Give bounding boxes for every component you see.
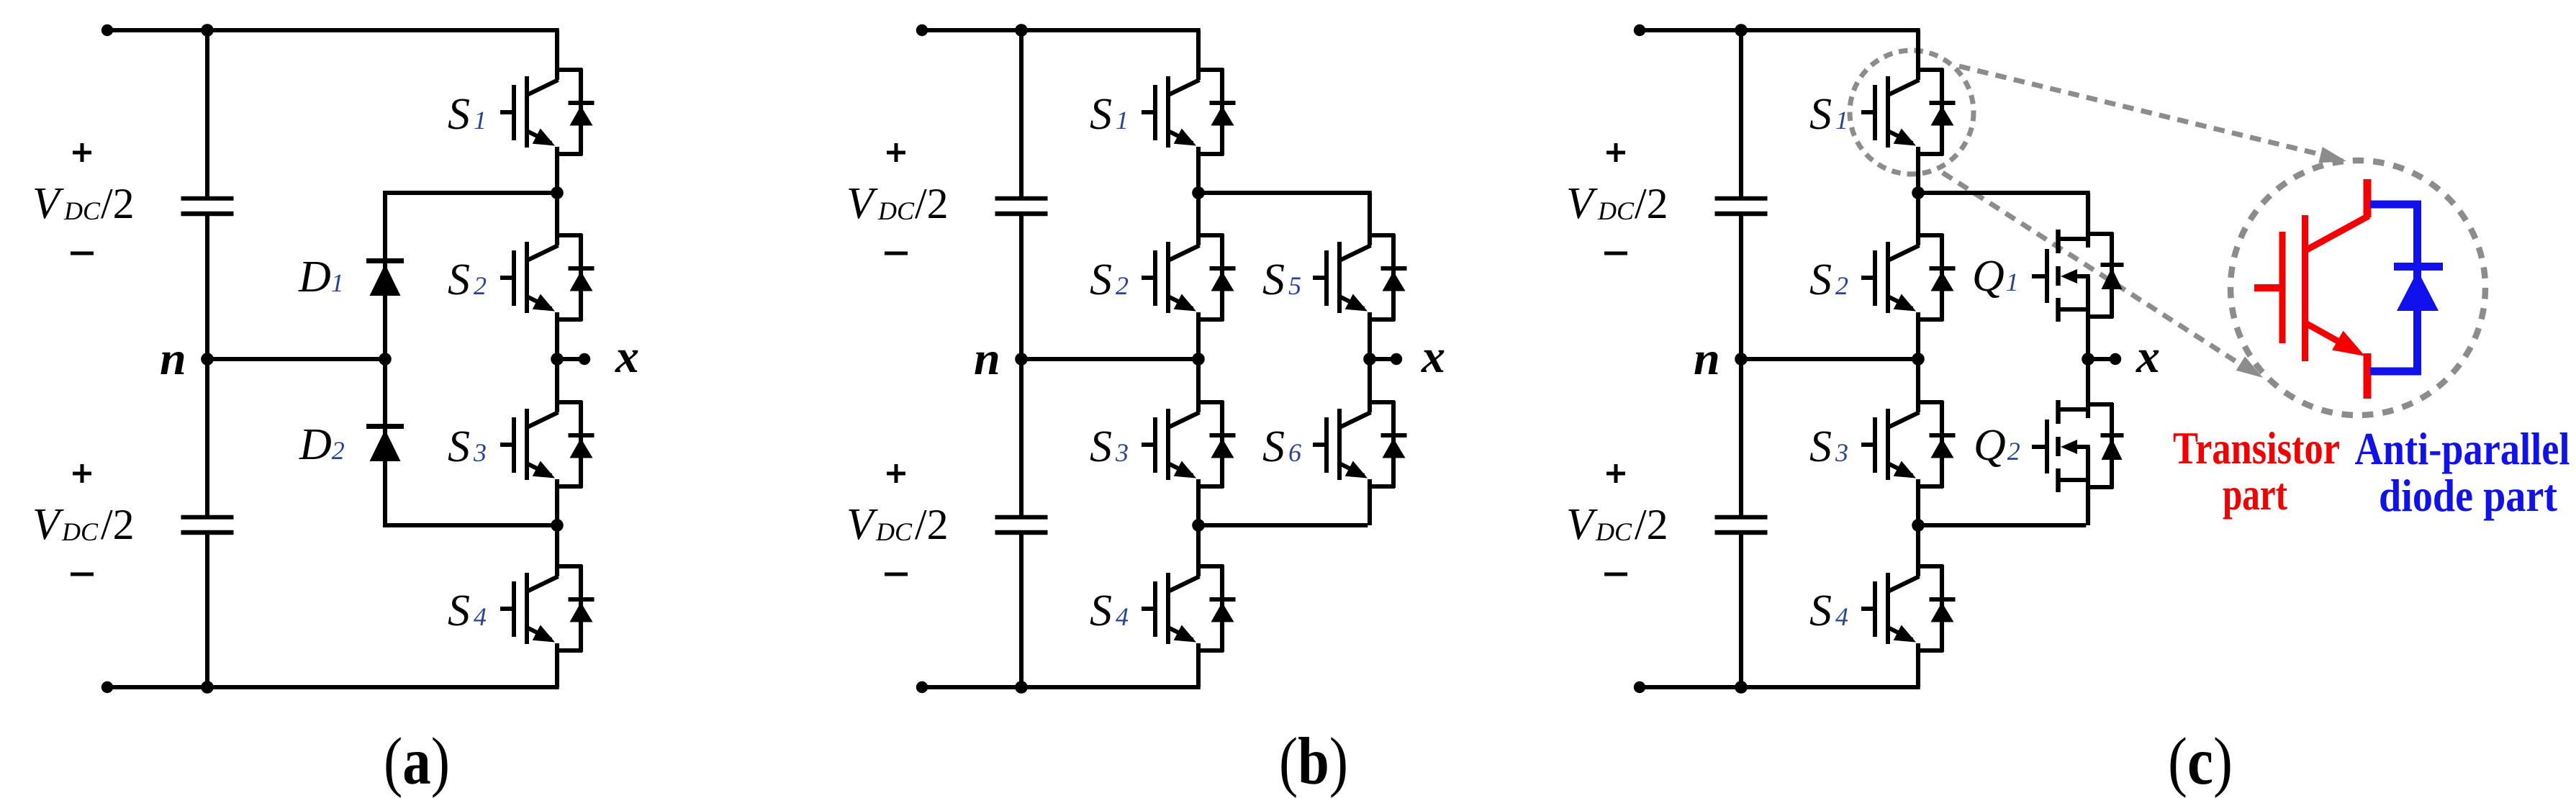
label S1 (b) (1090, 90, 1129, 139)
svg-text:/2: /2 (1635, 501, 1668, 548)
transistor Q2 (c) (2032, 359, 2124, 525)
node n dot (a) (201, 353, 214, 366)
wire DC bus (b) (1019, 30, 1023, 687)
label S4 (b) (1090, 586, 1129, 635)
wire top rail (a) (107, 28, 559, 32)
node x dots (a) (551, 353, 590, 366)
terminal dot top (c) (1634, 24, 1645, 36)
wire clamp top connector (a) (383, 191, 557, 359)
transistor S5 (b) (1313, 234, 1407, 359)
label S1 (a) (448, 90, 487, 139)
label S4 (c) (1809, 586, 1848, 635)
node x stub (c) (2088, 357, 2115, 361)
junction S3-S4 dot (b) (1192, 519, 1205, 532)
inset diode triangle (2397, 271, 2439, 311)
svg-text:V: V (1566, 500, 1598, 549)
transistor S3 (b) (1142, 359, 1236, 525)
svg-text:(a): (a) (384, 725, 450, 798)
svg-text:Anti-parallel: Anti-parallel (2355, 424, 2570, 474)
junction S1-S2 dot (b) (1192, 186, 1205, 199)
svg-text:V: V (846, 500, 878, 549)
svg-text:V: V (846, 179, 878, 228)
junction S2-S3 dot (c) (1912, 353, 1925, 366)
terminal dot top (b) (916, 24, 928, 36)
dashed arrow to inset (bottom) (1943, 173, 2263, 378)
label - upper (c) (1604, 252, 1627, 255)
inset diode top connector (2370, 201, 2421, 209)
terminal dot top (a) (101, 24, 113, 36)
junction clamp-neutral dot (a) (379, 353, 392, 366)
node x stub (b) (1370, 357, 1396, 361)
svg-text:DC: DC (63, 196, 101, 225)
transistor S1 (a) (500, 30, 595, 193)
junction S3-S4 dot (a) (551, 519, 564, 532)
svg-text:part: part (2223, 469, 2287, 520)
wire clamp bottom connector (a) (383, 359, 557, 527)
label - lower (c) (1604, 573, 1627, 576)
capacitor upper VDC/2 (c) (1715, 199, 1768, 214)
label VDC/2 lower (b) (846, 500, 949, 549)
svg-text:DC: DC (877, 196, 915, 225)
wire neutral (a) (207, 357, 385, 361)
wire outer bottom connector (c) (1918, 486, 2088, 525)
terminal dot bottom (c) (1634, 681, 1645, 693)
label + upper (b) (887, 143, 905, 162)
label S3 (b) (1090, 422, 1129, 471)
svg-text:n: n (160, 332, 186, 385)
label VDC/2 lower (c) (1566, 500, 1668, 549)
transistor S1 (c) (1861, 30, 1956, 193)
label + lower (b) (887, 464, 905, 483)
junction S1-S2 dot (c) (1912, 186, 1925, 199)
inset transistor emitter diagonal (2307, 324, 2365, 356)
svg-text:/2: /2 (101, 180, 135, 227)
inset transistor collector lead (2364, 179, 2372, 217)
caption (b) (1279, 725, 1348, 798)
label + lower (c) (1606, 464, 1625, 483)
capacitor lower VDC/2 (b) (995, 517, 1048, 532)
node n label (b) (974, 332, 1000, 385)
label S2 (a) (448, 255, 487, 304)
label S3 (c) (1809, 422, 1848, 471)
transistor S3 (a) (500, 359, 595, 525)
capacitor lower VDC/2 (a) (181, 517, 234, 532)
label Q2 (c) (1974, 421, 2020, 470)
label VDC/2 upper (c) (1566, 179, 1668, 228)
svg-text:(c): (c) (2168, 725, 2233, 798)
svg-text:DC: DC (875, 517, 913, 546)
label S2 (b) (1090, 255, 1129, 304)
wire DC bus (a) (205, 30, 209, 687)
label VDC/2 upper (b) (846, 179, 949, 228)
transistor S4 (c) (1861, 525, 1956, 687)
svg-text:/2: /2 (915, 180, 949, 227)
svg-text:x: x (615, 330, 639, 383)
wire top rail (b) (922, 28, 1201, 32)
transistor S2 (a) (500, 193, 595, 359)
svg-text:x: x (2136, 330, 2160, 383)
caption (c) (2168, 725, 2233, 798)
label S4 (a) (448, 586, 487, 635)
terminal dot bottom (a) (101, 681, 113, 693)
svg-text:(b): (b) (1279, 725, 1348, 798)
label D1 (a) (298, 253, 344, 301)
diode D2 (a) (366, 427, 404, 462)
junction S3-S4 dot (c) (1912, 519, 1925, 532)
label S2 (c) (1809, 255, 1848, 304)
wire bottom rail (c) (1640, 685, 1920, 689)
capacitor lower VDC/2 (c) (1715, 517, 1768, 532)
inset transistor collector diagonal (2307, 216, 2369, 250)
label Transistor part (2173, 423, 2340, 520)
svg-text:n: n (1694, 332, 1720, 385)
label + upper (a) (73, 143, 91, 162)
transistor S6 (b) (1313, 359, 1407, 488)
svg-text:/2: /2 (1635, 180, 1668, 227)
junction bottom rail dot (a) (201, 681, 214, 694)
transistor S3 (c) (1861, 359, 1956, 525)
dashed arrow to inset (top) (1959, 66, 2346, 163)
label VDC/2 lower (a) (32, 500, 135, 549)
label S5 (b) (1262, 255, 1301, 304)
inset diode branch (2413, 204, 2421, 371)
wire outer top connector (b) (1198, 193, 1372, 235)
junction top rail dot (b) (1015, 24, 1028, 37)
junction S2-S3 dot (b) (1192, 353, 1205, 366)
transistor S2 (b) (1142, 193, 1236, 359)
diode D1 (a) (366, 261, 404, 296)
transistor S4 (a) (500, 525, 595, 687)
node n label (a) (160, 332, 186, 385)
label + lower (a) (73, 464, 91, 483)
terminal dot bottom (b) (916, 681, 928, 693)
label - lower (b) (885, 573, 908, 576)
capacitor upper VDC/2 (b) (995, 199, 1048, 214)
svg-text:diode part: diode part (2379, 471, 2557, 521)
transistor S1 (b) (1142, 30, 1236, 193)
label - lower (a) (71, 573, 94, 576)
junction bottom rail dot (b) (1015, 681, 1028, 694)
node x dots (c) (2082, 353, 2121, 366)
node n dot (c) (1735, 353, 1748, 366)
junction S1-S2 dot (a) (551, 186, 564, 199)
transistor S2 (c) (1861, 193, 1956, 359)
label S3 (a) (448, 422, 487, 471)
highlight dashed circle around S1 (c) (1850, 50, 1974, 174)
label x (c) (2136, 330, 2160, 383)
label + upper (c) (1606, 143, 1625, 162)
label S6 (b) (1262, 422, 1301, 471)
label Q1 (c) (1972, 252, 2019, 301)
wire outer top connector (c) (1918, 193, 2090, 235)
svg-text:Transistor: Transistor (2173, 423, 2340, 473)
label - upper (a) (71, 252, 94, 255)
svg-text:V: V (32, 179, 64, 228)
transistor Q1 (c) (2032, 193, 2124, 359)
junction bottom rail dot (c) (1735, 681, 1748, 694)
node x stub (a) (557, 357, 584, 361)
wire top rail (c) (1640, 28, 1920, 32)
svg-text:n: n (974, 332, 1000, 385)
transistor S4 (b) (1142, 525, 1236, 687)
capacitor upper VDC/2 (a) (181, 199, 234, 214)
label VDC/2 upper (a) (32, 179, 135, 228)
label S1 (c) (1809, 90, 1848, 139)
inset transistor body bar (2302, 215, 2308, 361)
svg-text:x: x (1421, 330, 1445, 383)
svg-text:/2: /2 (101, 501, 135, 548)
svg-text:V: V (1566, 179, 1598, 228)
inset dashed circle (2231, 160, 2485, 415)
svg-text:DC: DC (61, 517, 99, 546)
svg-text:V: V (32, 500, 64, 549)
label D2 (a) (299, 420, 345, 469)
inset transistor gate bar (2279, 232, 2286, 343)
svg-text:/2: /2 (915, 501, 949, 548)
wire bottom rail (a) (107, 685, 559, 689)
wire outer bottom connector (b) (1198, 486, 1370, 525)
label Anti-parallel diode part (2355, 424, 2570, 521)
junction top rail dot (c) (1735, 24, 1748, 37)
wire DC bus (c) (1739, 30, 1743, 687)
inset transistor emitter lead (2364, 353, 2372, 399)
inset transistor gate lead (2254, 284, 2282, 291)
wire bottom rail (b) (922, 685, 1201, 689)
node x dots (b) (1363, 353, 1402, 366)
label x (b) (1421, 330, 1445, 383)
inset diode bottom connector (2370, 368, 2421, 376)
wire neutral (c) (1741, 357, 1918, 361)
node n label (c) (1694, 332, 1720, 385)
label x (a) (615, 330, 639, 383)
svg-text:DC: DC (1595, 517, 1632, 546)
label - upper (b) (885, 252, 908, 255)
junction top rail dot (a) (201, 24, 214, 37)
caption (a) (384, 725, 450, 798)
svg-text:DC: DC (1597, 196, 1635, 225)
node n dot (b) (1015, 353, 1028, 366)
wire neutral (b) (1021, 357, 1198, 361)
inset diode cathode bar (2394, 263, 2443, 271)
